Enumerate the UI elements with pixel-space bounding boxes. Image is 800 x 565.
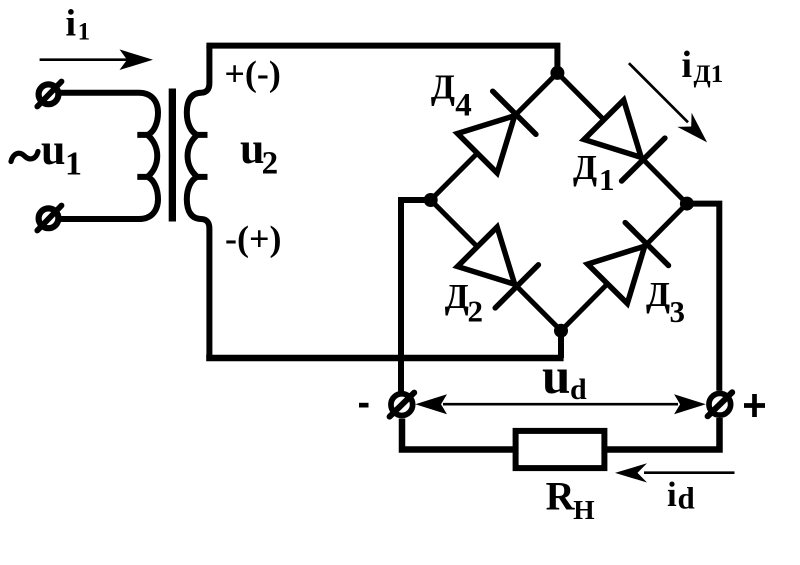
label iD1 <box>682 44 724 88</box>
svg-text:1: 1 <box>599 162 615 197</box>
terminal bottom-left <box>37 206 61 231</box>
terminal plus <box>708 392 733 416</box>
node right <box>680 197 694 211</box>
label ud <box>542 349 587 406</box>
label D4 <box>431 68 472 124</box>
transformer core <box>169 89 176 222</box>
wire bottom return rail <box>206 355 563 362</box>
diode D3 <box>588 223 669 304</box>
label D3 <box>646 275 685 329</box>
wire bridge edge L-B <box>431 200 561 331</box>
diode D2 <box>458 227 539 308</box>
wire right node stub to plus terminal <box>687 204 719 391</box>
svg-text:H: H <box>573 494 594 525</box>
svg-text:Д: Д <box>445 277 469 316</box>
label plus <box>744 394 765 417</box>
wire bottom loop left <box>402 419 516 450</box>
svg-text:Д: Д <box>646 275 670 314</box>
label ~u1 <box>11 125 82 182</box>
svg-text:1: 1 <box>65 145 82 182</box>
wire bridge edge B-R <box>561 204 687 331</box>
transformer primary winding <box>60 93 159 219</box>
arrow ud double head <box>415 394 706 414</box>
diode D1 <box>584 100 665 181</box>
svg-text:u: u <box>41 125 65 174</box>
wire bridge edge L-T <box>431 73 558 200</box>
svg-text:+(-): +(-) <box>224 54 280 94</box>
wire top rail <box>206 46 557 73</box>
node bottom <box>554 324 568 338</box>
label RH <box>546 474 595 525</box>
svg-text:Д: Д <box>573 148 597 187</box>
label D1 <box>573 148 615 197</box>
svg-text:i: i <box>66 2 77 44</box>
svg-text:R: R <box>546 474 576 519</box>
svg-text:u: u <box>542 349 570 405</box>
resistor RH <box>516 431 605 468</box>
wire bridge edge T-R <box>557 73 687 204</box>
label id <box>667 475 695 516</box>
wire bottom node stub <box>558 331 564 358</box>
label u2 <box>240 124 278 181</box>
terminal top-left <box>37 82 61 107</box>
svg-text:i: i <box>667 475 677 514</box>
wire bottom loop right <box>604 418 719 450</box>
node left <box>424 193 438 207</box>
diode D4 <box>458 91 536 173</box>
arrow iD1 <box>629 63 707 142</box>
label D2 <box>445 277 483 329</box>
terminal minus <box>390 393 415 417</box>
label i1 <box>66 2 91 45</box>
arrow i1 <box>40 49 153 70</box>
arrow id <box>615 463 735 482</box>
label minus <box>359 403 369 408</box>
svg-text:2: 2 <box>262 146 279 182</box>
node top <box>550 66 564 80</box>
svg-text:1: 1 <box>78 18 91 45</box>
svg-text:-(+): -(+) <box>225 219 281 259</box>
transformer secondary winding <box>187 46 210 357</box>
svg-text:Д1: Д1 <box>694 61 724 88</box>
svg-text:3: 3 <box>670 294 686 329</box>
svg-text:2: 2 <box>468 294 484 329</box>
wire left node stub to minus terminal <box>401 200 431 392</box>
svg-text:i: i <box>682 44 693 86</box>
svg-text:d: d <box>678 481 695 516</box>
svg-text:Д: Д <box>431 68 455 107</box>
svg-text:d: d <box>570 373 587 406</box>
svg-text:4: 4 <box>455 88 472 124</box>
